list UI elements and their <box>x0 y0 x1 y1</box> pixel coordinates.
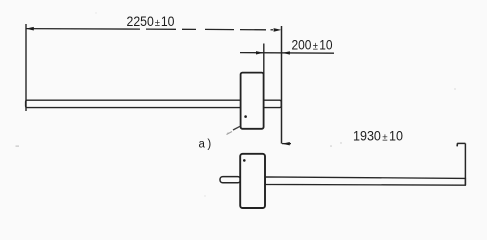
svg-text:a): a) <box>199 139 214 151</box>
svg-text:1930±10: 1930±10 <box>353 128 403 143</box>
svg-text:2250±10: 2250±10 <box>127 14 175 29</box>
svg-text:200±10: 200±10 <box>292 37 333 53</box>
